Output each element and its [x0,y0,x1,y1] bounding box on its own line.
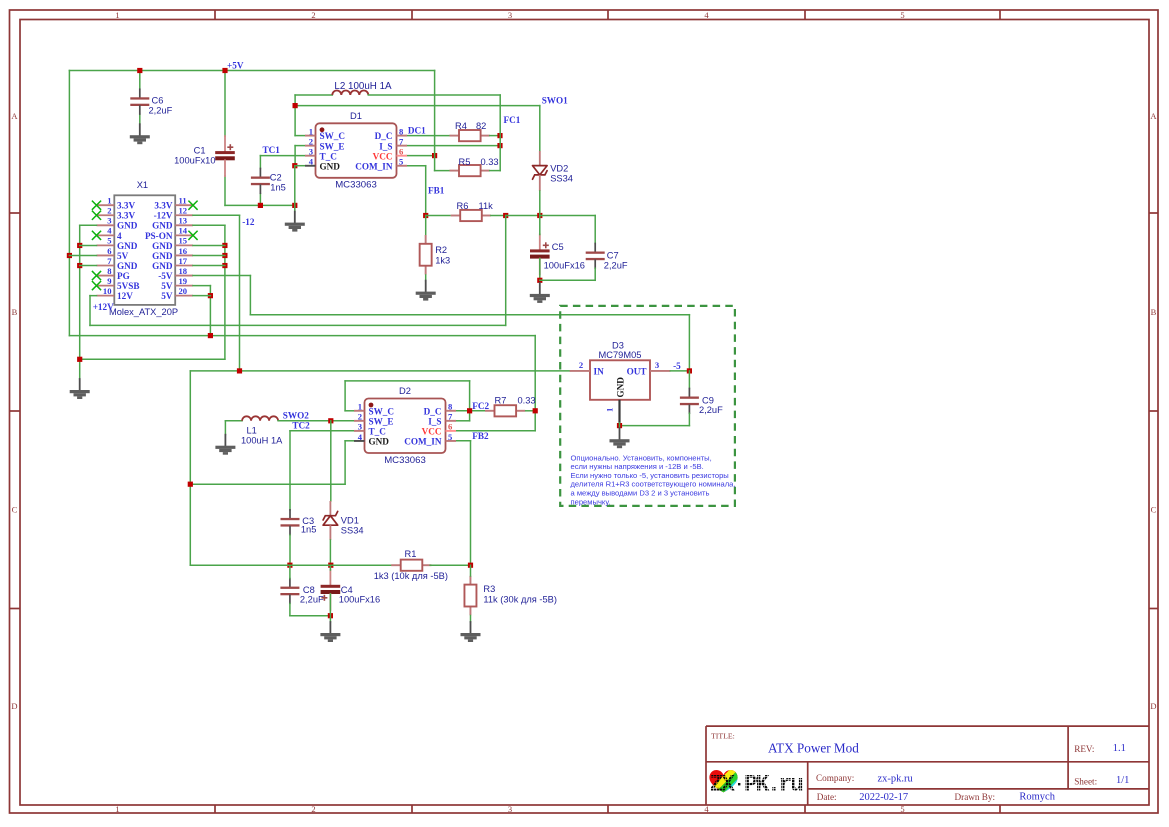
svg-text:R4: R4 [455,121,467,131]
no-connect pin9 [92,281,101,290]
svg-text:DC1: DC1 [408,125,426,135]
svg-text:Molex_ATX_20P: Molex_ATX_20P [109,307,178,317]
svg-text:GND: GND [117,261,138,271]
svg-text:Company:: Company: [816,773,854,783]
wire pin12 -12V [193,214,240,216]
wire C5 bottom [539,259,541,281]
wire D3 gnd drop [619,423,621,428]
svg-text:10: 10 [103,286,112,296]
svg-text:TC2: TC2 [292,421,310,431]
frame row letters [11,111,1157,711]
wire C7 top [594,216,596,244]
pin 5 D1 COM_IN [355,157,407,172]
svg-text:MC33063: MC33063 [384,455,426,466]
svg-text:I_S: I_S [428,416,441,426]
wire SWO1 [295,105,540,107]
junction FB2/R3 [468,563,473,568]
svg-text:5VSB: 5VSB [117,281,139,291]
svg-text:3.3V: 3.3V [154,201,172,211]
svg-text:3: 3 [508,804,512,814]
svg-text:5: 5 [399,157,403,167]
svg-text:5: 5 [107,236,111,246]
wire R5 right [490,170,501,172]
pin 1 X1 [97,196,136,211]
svg-text:REV:: REV: [1074,744,1094,754]
pin 4 X1 [97,226,123,241]
pin 8 X1 [97,266,130,281]
wire C9 bottom [688,413,690,425]
wire gnd right pin [193,255,225,257]
svg-text:C: C [1151,505,1157,515]
svg-text:SW_E: SW_E [320,141,345,151]
wire -12V line D [190,370,569,372]
wire I_S line [407,145,501,147]
svg-text:-12V: -12V [154,211,173,221]
wire C6 top [139,71,141,90]
svg-text:2: 2 [311,10,315,20]
svg-text:1: 1 [358,402,362,412]
svg-text:T_C: T_C [369,427,386,437]
no-connect pin2 [92,211,101,220]
wire C2 top vertical [259,156,261,169]
svg-text:C2: C2 [270,173,282,183]
svg-text:C4: C4 [341,585,353,595]
junction R7/+5V [533,408,538,413]
wire gnd right pin [193,244,225,246]
svg-text:A: A [11,111,18,121]
svg-text:PS-ON: PS-ON [145,231,173,241]
pin 3 D3 OUT [627,360,671,377]
svg-text:T_C: T_C [320,151,337,161]
svg-text:R3: R3 [483,584,495,594]
svg-text:7: 7 [399,136,404,146]
frame row ticks left/right [10,213,1159,609]
junction -12V [237,368,242,373]
junction gnd right [222,253,227,258]
wire COM_IN wire [407,165,426,167]
wire D2 gnd left [190,483,345,485]
svg-text:16: 16 [179,246,188,256]
svg-text:R2: R2 [435,245,447,255]
junction C4 gnd [328,613,333,618]
svg-text:GND: GND [152,261,173,271]
wire GND down [294,166,296,212]
svg-text:ZX·PK.ru: ZX·PK.ru [710,772,804,798]
svg-text:3: 3 [655,360,659,370]
svg-text:PG: PG [117,271,130,281]
wire R6 left [426,215,450,217]
wire VD1 top [330,421,332,501]
pin 3 D1 T_C [305,147,337,162]
svg-text:GND: GND [117,221,138,231]
wire -5V line [250,314,689,316]
svg-text:GND: GND [369,437,390,447]
wire +5V down to R5 [434,71,436,171]
capacitor C8 [280,579,299,604]
junction pin20 [208,293,213,298]
ground under R3 [461,622,481,642]
wire D2 gnd wire [345,440,354,442]
svg-text:11k: 11k [479,201,494,211]
wire GND bus bottom [225,204,295,206]
svg-text:X1: X1 [137,180,148,190]
ground under C5 [530,283,550,303]
wire I_S2 wire [456,420,470,422]
wire +12V up to R6 node [505,216,507,326]
svg-text:82: 82 [476,121,486,131]
svg-text:11: 11 [179,196,187,206]
wire +5V line C [69,335,535,337]
svg-text:7: 7 [448,412,453,422]
capacitor C7 [586,244,605,269]
pin 7 D2 I_S [428,412,456,427]
regulator D3 MC79M05 [590,360,650,400]
junction VD2/C5 [537,213,542,218]
svg-text:8: 8 [399,126,404,136]
pin 4 D2 GND [354,432,389,447]
pin 14 X1 [145,226,193,241]
junction GND bus [292,203,297,208]
wire OUT to -5 node [670,370,689,372]
svg-text:если нужны напряжения и -12В и: если нужны напряжения и -12В и -5В. [571,462,704,471]
junction pin5 gnd [77,243,82,248]
svg-text:B: B [12,307,18,317]
lead VD2 cathode [539,175,541,191]
wire C1 bottom [224,176,226,205]
svg-text:0.33: 0.33 [518,396,536,406]
junction FC1/I_S [497,143,502,148]
wire -5V into box [688,315,690,371]
note optional text [571,453,736,506]
wire L1 left corner [225,420,242,422]
svg-text:ATX Power Mod: ATX Power Mod [768,740,859,755]
svg-text:MC33063: MC33063 [335,180,377,191]
wire D1 SW_E corner [295,145,305,147]
resistor R6 [451,210,491,221]
svg-text:6: 6 [399,147,404,157]
junction pin6 +5V [67,253,72,258]
svg-text:TC1: TC1 [263,145,281,155]
wire C4 top [329,565,331,570]
no-connect pin14 [188,231,197,240]
wire R2 bottom [425,275,427,281]
svg-text:14: 14 [179,226,188,236]
ground under D3 [610,428,630,448]
svg-text:17: 17 [179,256,188,266]
svg-text:D_C: D_C [375,131,393,141]
junction -5 node [687,368,692,373]
title block [706,726,1149,805]
pin 6 D1 VCC [373,147,407,162]
wire -12V left vertical [189,371,191,565]
svg-text:перемычку.: перемычку. [571,497,611,506]
wire T_C2 line [290,430,355,432]
svg-text:100uFx16: 100uFx16 [544,261,585,271]
svg-text:R1: R1 [405,549,417,559]
pin 10 X1 [97,286,134,301]
svg-text:3.3V: 3.3V [117,201,135,211]
wire D2 loop left [344,381,346,411]
svg-text:C9: C9 [702,395,714,405]
wire R2 top [425,216,427,236]
wire FB2 vertical [470,441,472,565]
svg-text:SWO1: SWO1 [542,96,568,106]
svg-text:100uFx10: 100uFx10 [174,156,215,166]
pin 8 D1 D_C [375,126,407,141]
svg-text:I_S: I_S [379,141,392,151]
svg-text:1: 1 [309,126,313,136]
pin 8 D2 D_C [424,402,456,417]
svg-text:C7: C7 [607,251,619,261]
capacitor C4 (polarized) [321,570,341,610]
wire C3 vertical top [289,431,291,510]
capacitor C9 [680,389,699,414]
capacitor C6 [130,89,149,114]
resistor R3 [464,576,476,616]
wire C6 bottom [139,114,141,124]
svg-text:TITLE:: TITLE: [711,732,735,741]
svg-text:4: 4 [107,226,112,236]
svg-text:Drawn By:: Drawn By: [955,792,996,802]
wire D2 loop right [469,381,471,421]
pin 18 X1 [158,266,193,281]
dashed optional box [560,306,735,506]
junction C4 node [328,563,333,568]
svg-text:2: 2 [579,360,583,370]
wire L1 gnd drop [224,421,226,435]
wire C9 gnd row [620,425,690,427]
resistor R5 [450,165,490,176]
pin 6 X1 [97,246,129,261]
svg-text:5V: 5V [161,291,173,301]
junction +5V/C6 [137,68,142,73]
pin 7 X1 [97,256,138,271]
wire SW_C wire [345,410,354,412]
ground under R2 [416,281,436,301]
svg-text:GND: GND [152,221,173,231]
pin 2 D2 SW_E [354,412,394,427]
junction VCC/+5V [432,153,437,158]
svg-text:делителя R1+R3 соответствующег: делителя R1+R3 соответствующего номинала… [571,480,736,489]
svg-text:6: 6 [107,246,112,256]
connector X1 Molex_ATX_20P [114,195,175,305]
svg-text:1: 1 [107,196,111,206]
svg-text:IN: IN [594,367,605,377]
junction pin7 gnd [77,263,82,268]
wire R6 right [491,215,506,217]
svg-text:Date:: Date: [817,792,837,802]
wire VD2 top [539,106,541,151]
pin 17 X1 [152,256,193,271]
wire GND left vertical [79,225,81,379]
svg-text:3: 3 [358,422,362,432]
wire C4 bottom [329,594,331,622]
logo zx-pk.ru [704,760,803,805]
junction SW_E/GND pin [292,163,297,168]
wire C1 top [224,71,226,137]
wire +5V down to R7 [534,336,536,431]
inductor L1 [242,416,278,421]
svg-text:SW_C: SW_C [369,406,395,416]
capacitor C5 (polarized) [530,234,550,274]
svg-text:5V: 5V [117,251,129,261]
svg-text:Опционально. Установить, компо: Опционально. Установить, компоненты, [571,453,712,462]
pin 15 X1 [152,236,193,251]
IC D2 MC33063 [365,399,446,454]
junction FC2 [467,408,472,413]
wire pin19 5V [193,285,210,287]
svg-text:2: 2 [107,206,111,216]
svg-text:2022-02-17: 2022-02-17 [859,792,908,803]
svg-text:GND: GND [152,251,173,261]
inductor L2 [332,91,368,96]
svg-text:1: 1 [115,804,119,814]
svg-text:C1: C1 [194,145,206,155]
svg-text:SW_C: SW_C [320,131,346,141]
wire R3 top [470,565,472,576]
svg-text:VD1: VD1 [341,516,359,526]
svg-text:-12: -12 [242,217,255,227]
capacitor C2 [251,169,270,194]
svg-text:1k3: 1k3 [435,256,450,266]
wire -12V vertical [239,215,241,371]
wire gnd right pin [193,265,225,267]
svg-text:zx-pk.ru: zx-pk.ru [878,774,914,785]
wire C7 bottom [594,268,596,280]
junction gnd right [222,263,227,268]
svg-text:C8: C8 [303,585,315,595]
svg-text:1: 1 [115,10,119,20]
svg-text:VCC: VCC [373,151,393,161]
wire R4 to FC1 node [490,135,500,137]
wire R6 row to C7 [540,215,595,217]
resistor R1 [391,560,431,571]
diode VD1 (Schottky, cathode up) [323,511,338,525]
IC D1 MC33063 [316,123,397,178]
svg-text:VD2: VD2 [550,163,568,173]
wire SW_E down [294,146,296,166]
svg-text:8: 8 [107,266,112,276]
wire VD1 bottom [329,540,331,565]
svg-text:-5: -5 [673,361,681,371]
wire pin10 12V [90,295,97,297]
svg-text:3.3V: 3.3V [117,211,135,221]
wire 5V right vertical [209,286,211,336]
svg-text:1k3 (10k для -5В): 1k3 (10k для -5В) [374,571,448,581]
svg-text:5: 5 [448,432,452,442]
pin 6 D2 VCC [422,422,456,437]
frame column numbers [115,10,904,814]
svg-text:D1: D1 [350,110,362,121]
wire D_C to R4 [407,135,450,137]
junction gnd right [222,243,227,248]
svg-text:а между выводами D3 2 и 3 уста: а между выводами D3 2 и 3 установить [571,489,710,498]
svg-text:19: 19 [179,276,188,286]
wire R5 left corner [435,170,450,172]
diode VD2 (Schottky, cathode down) [533,166,548,180]
svg-text:FC2: FC2 [472,401,489,411]
svg-text:VCC: VCC [422,427,442,437]
svg-text:2,2uF: 2,2uF [300,595,324,605]
wire pin3 GND left [80,224,97,226]
no-connect pin8 [92,271,101,280]
no-connect pin11 [188,201,197,210]
svg-text:R5: R5 [459,157,471,167]
svg-text:A: A [1150,111,1157,121]
capacitor C3 [281,510,300,535]
pin1 mark D1 [320,127,325,132]
svg-text:8: 8 [448,402,453,412]
svg-text:2,2uF: 2,2uF [604,261,628,271]
pin 13 X1 [152,216,193,231]
wire T_C line [260,155,304,157]
wire C8 top [289,565,291,578]
wire GND pin wire [295,165,305,167]
svg-text:GND: GND [320,161,341,171]
pin 12 X1 [154,206,193,221]
svg-text:2: 2 [309,136,313,146]
pin 3 X1 [97,216,138,231]
pin 5 D2 COM_IN [404,432,456,447]
pin 2 D3 IN [570,360,604,377]
wire R3 bottom [470,616,472,623]
pin 19 X1 [161,276,193,291]
junction FB1/R6 [423,213,428,218]
ground X1 ground [70,379,90,399]
wire C2 bottom vertical [259,194,261,206]
resistor R7 [485,405,525,416]
wire R1 right [430,564,470,566]
svg-text:13: 13 [179,216,188,226]
svg-text:12: 12 [179,206,188,216]
svg-text:D: D [11,701,17,711]
wire D2 gnd down [344,441,346,484]
svg-text:4: 4 [309,157,314,167]
svg-text:5: 5 [900,804,904,814]
junction +12V tap [503,213,508,218]
wire +12V down [89,296,91,326]
svg-text:7: 7 [107,256,112,266]
svg-text:FB2: FB2 [472,431,489,441]
wire VCC2 wire [456,430,536,432]
svg-text:4: 4 [117,231,122,241]
wire pin18 -5V [193,275,250,277]
no-connect pin1 [92,201,101,210]
wire pin5 gnd [80,244,97,246]
svg-text:1n5: 1n5 [301,524,317,534]
svg-text:Если нужно только -5, установи: Если нужно только -5, установить резисто… [571,471,729,480]
svg-text:GND: GND [117,241,138,251]
svg-text:18: 18 [179,266,188,276]
svg-text:R6: R6 [457,201,469,211]
svg-text:1.1: 1.1 [1113,743,1126,754]
pin 2 X1 [97,206,136,221]
svg-text:Romych: Romych [1019,792,1055,803]
pin 1 D1 SW_C [305,126,345,141]
wire GND U bottom [80,358,225,360]
wire FB1 vertical [425,166,427,216]
ground under C6 [130,124,150,144]
svg-text:MC79M05: MC79M05 [599,350,642,360]
svg-text:5V: 5V [161,281,173,291]
junction C2/GND bus [258,203,263,208]
svg-text:3: 3 [508,10,512,20]
pin 7 D1 I_S [379,136,407,151]
svg-text:2,2uF: 2,2uF [699,405,723,415]
wire R1 row left [190,564,400,566]
wire D_C2 wire [456,410,494,412]
wire +5V left vertical [68,71,70,336]
